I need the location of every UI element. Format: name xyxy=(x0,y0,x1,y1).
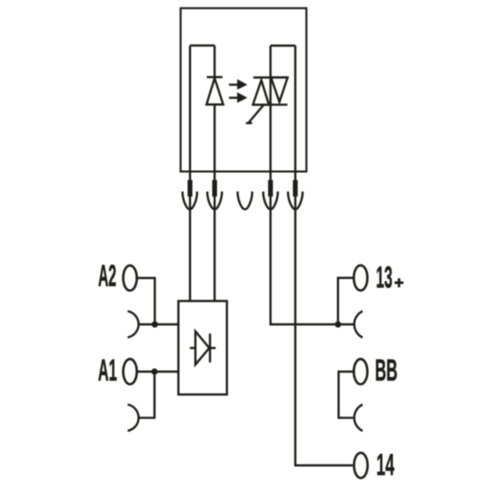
svg-text:13: 13 xyxy=(376,260,392,294)
svg-text:A1: A1 xyxy=(98,354,117,388)
svg-text:BB: BB xyxy=(375,354,398,388)
svg-text:A2: A2 xyxy=(98,259,116,293)
svg-text:14: 14 xyxy=(376,448,394,482)
